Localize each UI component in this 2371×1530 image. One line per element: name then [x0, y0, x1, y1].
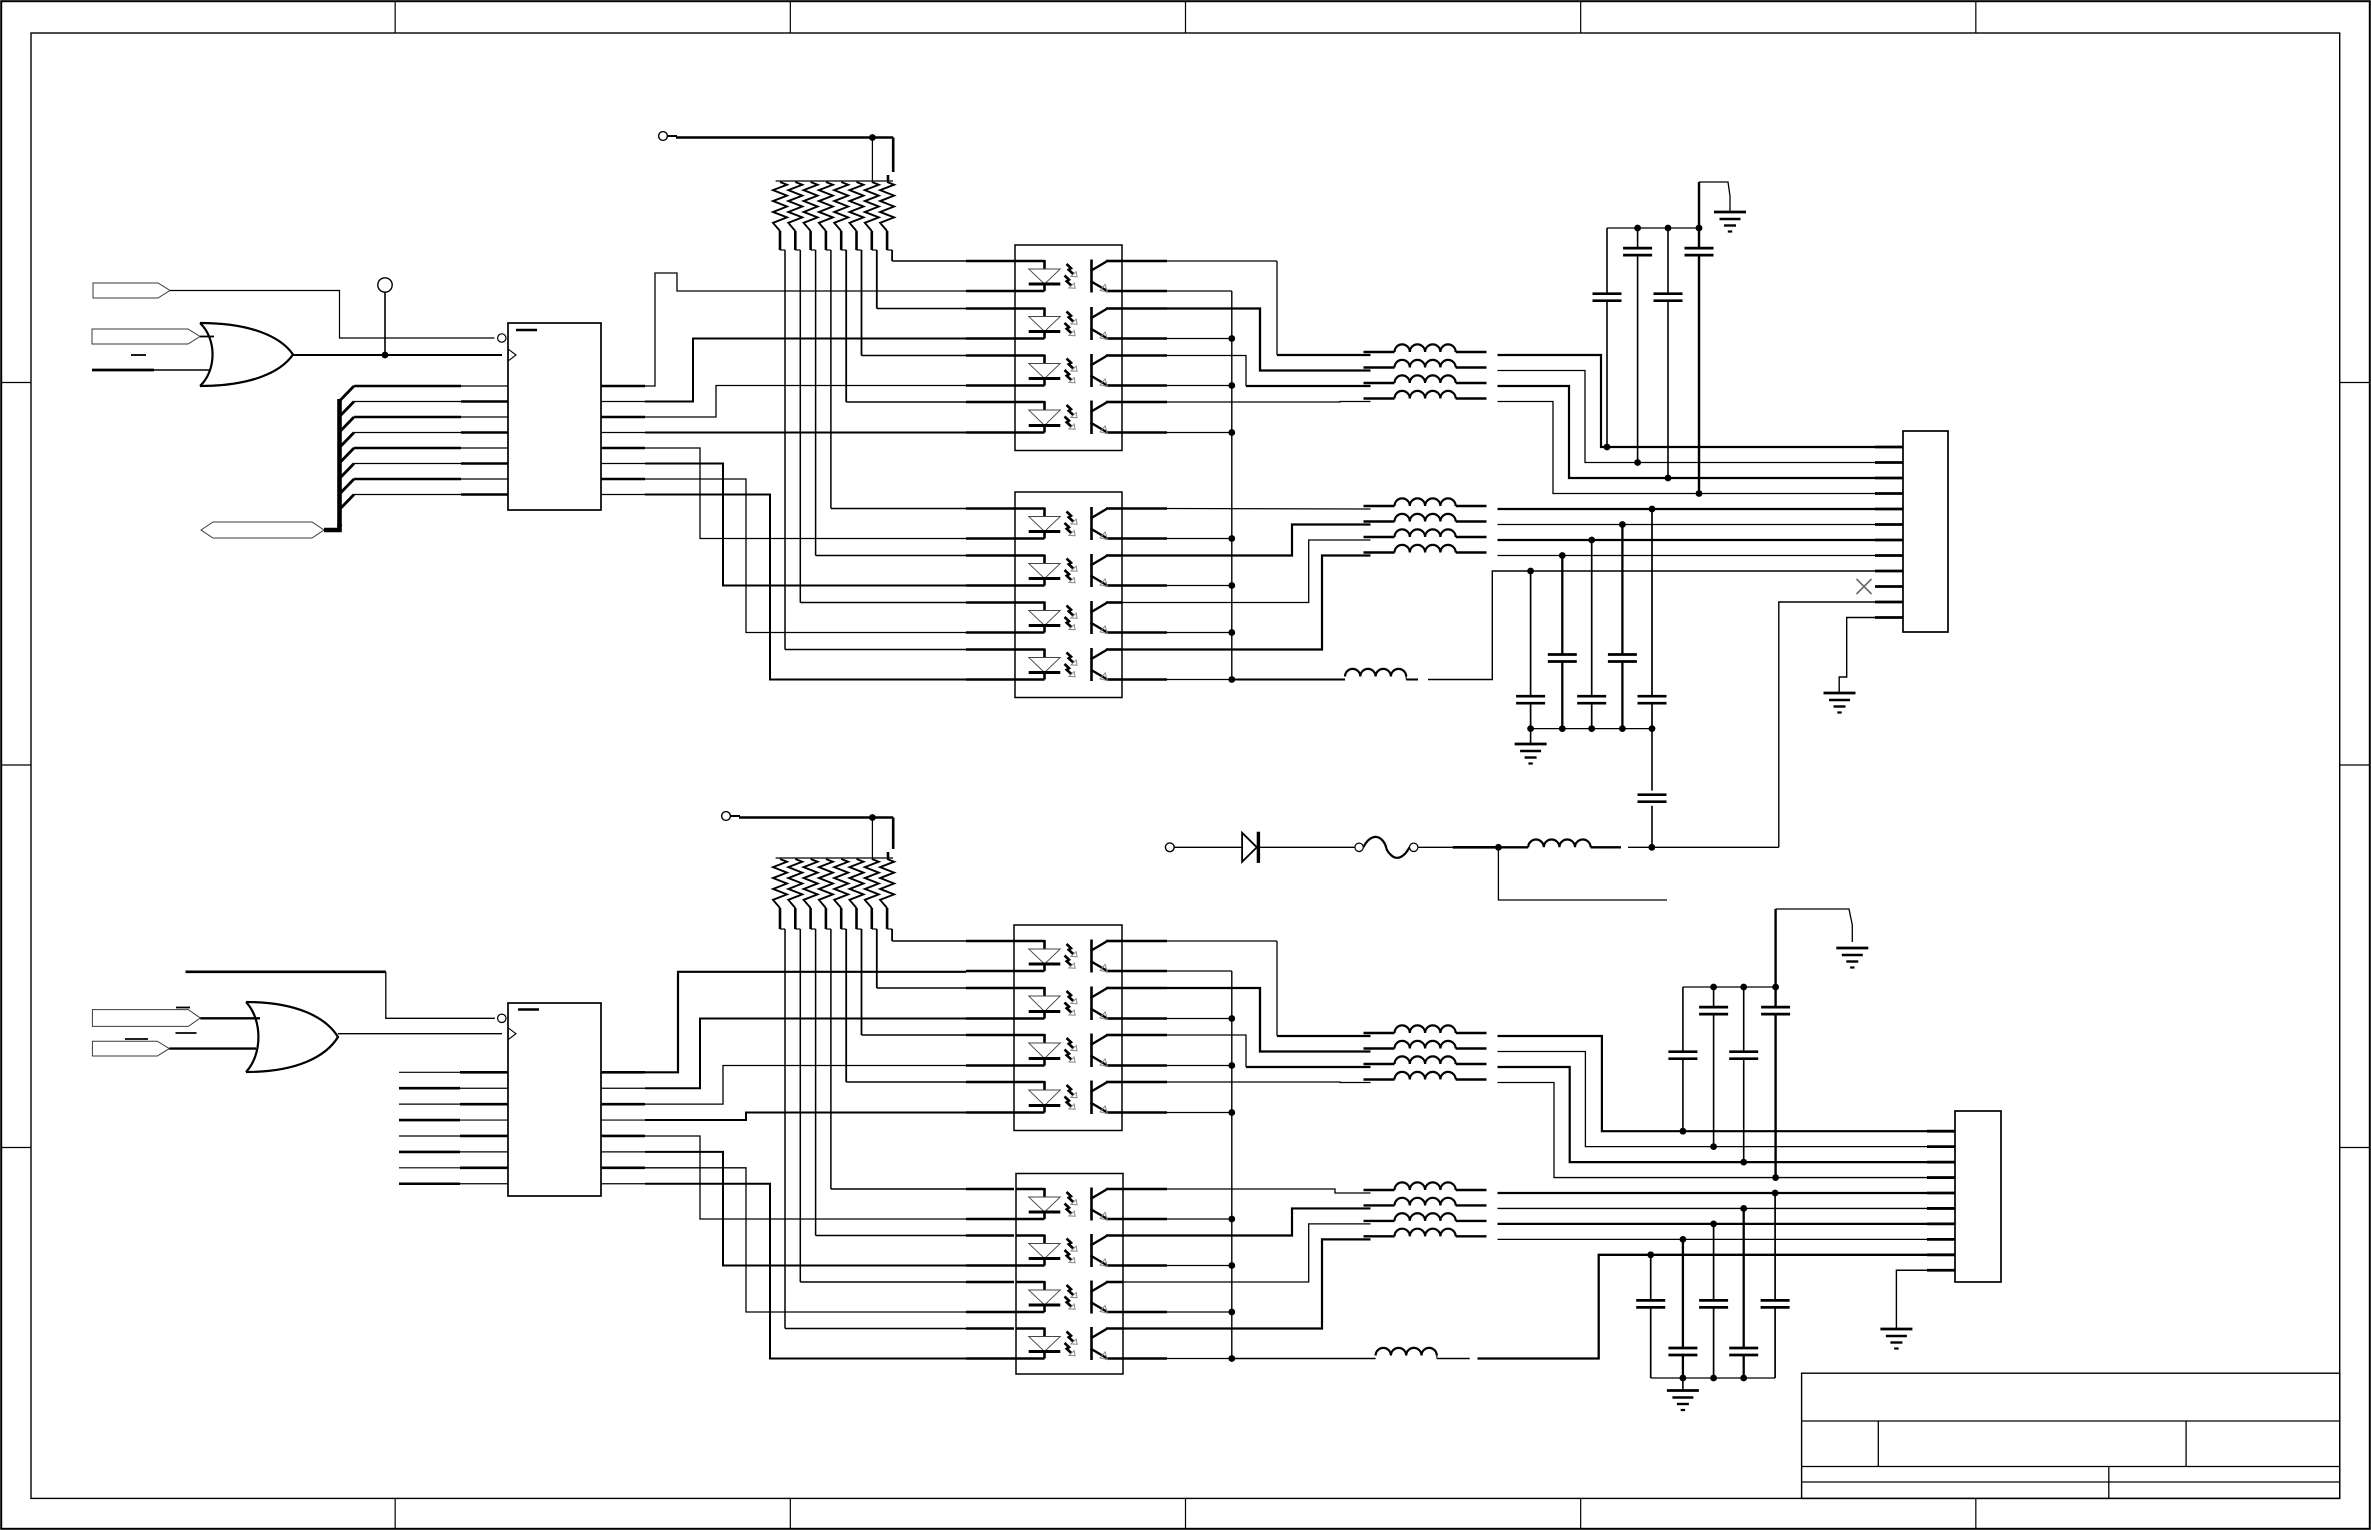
wire pull-up stem [384, 292, 386, 355]
frame zone ticks left [1, 382, 31, 384]
wire resistor R3 to LED anode [815, 250, 817, 556]
wire U1 out2 to U2 cathode2 [601, 401, 645, 403]
wire L6 to connector J1 pin 6 [1498, 524, 1876, 526]
inductor L3 [1364, 382, 1395, 384]
connector J2 pin 3 stub [1927, 1161, 1955, 1164]
wire U3 collector1 to L5 [1122, 507, 1167, 510]
wire resistor R8 to LED anode [891, 250, 893, 261]
net flag IN2B [92, 1041, 169, 1056]
capacitor C6 [1561, 556, 1563, 655]
wire bus to U1 input pin 1 [354, 385, 461, 388]
wire L2 to connector J1 pin 2 [1498, 371, 1876, 463]
ground GND4 riser [1774, 909, 1776, 987]
connector J1 pin 12 stub [1875, 616, 1903, 619]
junction [1772, 1174, 1779, 1181]
capacitor C8 [1621, 525, 1623, 655]
wire U4 out3 to U5 cathode3 [601, 1103, 645, 1106]
wire U5 collector1 to L11 [1122, 940, 1167, 943]
optocoupler U3 (quad) [1015, 492, 1122, 698]
inductor L16 [1364, 1204, 1395, 1206]
wire U4 out5 to U6 cathode1 [601, 1135, 645, 1138]
wire phototransistor emitter to bus [1122, 1264, 1167, 1267]
bus BUS1 vertical [337, 399, 342, 527]
junction [1680, 1128, 1687, 1135]
wire U6 collector1 to L15 [1123, 1188, 1167, 1191]
wire phototransistor emitter to bus [1122, 584, 1167, 587]
wire L19 to connector J2 pin 9 [1478, 1255, 1928, 1359]
wire U1 out3 to U2 cathode3 [601, 416, 645, 419]
bus net flag [201, 522, 324, 538]
terminal T2 circle [1165, 843, 1174, 852]
bus entry tap 1 [340, 386, 355, 401]
ground GND1 [1714, 211, 1746, 214]
ground GND1 riser [1698, 182, 1700, 228]
connector J1 pin 2 stub [1875, 461, 1903, 464]
wire L7 to connector J1 pin 7 [1498, 539, 1876, 541]
bus entry tap 2 [340, 402, 355, 417]
wire phototransistor emitter to bus [1122, 1064, 1167, 1067]
junction [1647, 1251, 1654, 1258]
inductor L7 [1364, 536, 1395, 538]
frame zone ticks right [2340, 382, 2370, 384]
junction [1696, 490, 1703, 497]
inductor L13 [1364, 1063, 1395, 1065]
wire U6 collector3 to L17 [1123, 1224, 1371, 1282]
wire L4 to connector J1 pin 4 [1498, 402, 1876, 494]
or-gate G2 [246, 1002, 258, 1072]
ground GND5 [1682, 1378, 1684, 1390]
wire resistor R15 to LED anode [876, 929, 878, 988]
capacitor C18 [1743, 1208, 1745, 1348]
wire resistor R10 to LED anode [799, 929, 801, 1282]
capacitor C9 [1651, 509, 1653, 696]
inductor L15 [1364, 1189, 1395, 1191]
connector J1 [1903, 431, 1948, 632]
wire flag IN1A to U1 enable [170, 291, 495, 339]
wire input stub to U4 pin 6 [399, 1151, 460, 1154]
resistor R11 [804, 859, 818, 908]
net flag IN1B [92, 329, 200, 344]
wire resistor R11 to LED anode [815, 929, 817, 1236]
junction [869, 814, 876, 821]
wire U4 out8 to U6 cathode4 [601, 1183, 645, 1185]
resistor R15 [865, 859, 879, 908]
junction [1740, 1159, 1747, 1166]
wire flag IN2A to OR gate G2 [200, 1017, 260, 1019]
resistor R9 [773, 859, 787, 908]
wire U5 collector4 to L14 [1122, 1081, 1167, 1084]
connector J1 pin 5 stub [1875, 508, 1903, 511]
wire resistor R12 to LED anode [830, 929, 832, 1189]
connector J1 pin 10 stub [1875, 585, 1903, 588]
wire bus to U1 input pin 3 [354, 416, 461, 419]
inductor L4 [1364, 397, 1395, 399]
wire F1 to L10 [1418, 846, 1453, 848]
net flag IN1A [93, 283, 170, 298]
wire bus to U1 input pin 8 [354, 494, 461, 496]
cap bus C5-C9 bottom rail [1531, 728, 1652, 730]
inductor L12 [1364, 1047, 1395, 1049]
inductor L10 [1502, 846, 1528, 848]
wire resistor R9 to LED anode [784, 929, 786, 1329]
junction [382, 352, 389, 359]
IC U1 buffer [508, 323, 601, 510]
wire resistor R16 to LED anode [891, 929, 893, 941]
capacitor C14 [1774, 987, 1776, 1007]
wire flag IN1B to OR gate input [200, 336, 214, 338]
junction [869, 134, 876, 141]
diode D1 [1242, 833, 1257, 862]
wire L18 to connector J2 pin 8 [1498, 1238, 1928, 1240]
wire L3 to connector J1 pin 3 [1498, 386, 1876, 478]
wire U6 collector2 to L16 [1123, 1208, 1371, 1235]
capacitor C17 [1713, 1224, 1715, 1301]
junction [1740, 1205, 1747, 1212]
or-gate G1 [200, 323, 213, 386]
cap bus C15-C19 rail [1651, 1377, 1775, 1379]
wire phototransistor emitter to bus [1122, 1111, 1167, 1114]
connector J2 pin 9 stub [1927, 1253, 1955, 1256]
connector J2 pin 2 stub [1927, 1145, 1955, 1148]
wire L13 to connector J2 pin 3 [1498, 1067, 1928, 1162]
label dash [176, 1007, 190, 1009]
junction [1710, 1143, 1717, 1150]
ground GND2 [1530, 729, 1532, 744]
U4 enable bubble pin [498, 1014, 506, 1022]
resistor R8 [880, 182, 894, 231]
wire L14 to connector J2 pin 4 [1498, 1083, 1928, 1178]
inductor L8 [1364, 551, 1395, 553]
no-connect X at J1 pin 10 [1857, 579, 1872, 594]
junction [1649, 506, 1656, 513]
wire resistor R4 to LED anode [830, 250, 832, 509]
wire L5 to connector J1 pin 5 [1498, 508, 1876, 510]
wire L17 to connector J2 pin 7 [1498, 1223, 1928, 1225]
capacitor C5 [1530, 571, 1532, 696]
wire input stub to U4 pin 3 [399, 1103, 460, 1105]
junction [1619, 521, 1626, 528]
connector J2 pin 6 stub [1927, 1207, 1955, 1210]
cap bus C1-C4 top rail [1607, 227, 1699, 229]
inductor L14 [1364, 1078, 1395, 1080]
resistor R6 [850, 182, 864, 231]
wire U2 collector3 to L3 [1122, 354, 1167, 357]
wire OR gate input 2 [92, 369, 154, 372]
junction [1772, 1190, 1779, 1197]
connector J2 pin 7 stub [1927, 1223, 1955, 1226]
title block [1802, 1373, 2340, 1498]
resistor R5 [834, 182, 848, 231]
bus entry tap 8 [340, 495, 355, 510]
wire U6 collector4 to L18 [1123, 1239, 1371, 1328]
wire resistor R5 to LED anode [845, 250, 847, 402]
label dash [176, 1032, 197, 1034]
frame zone ticks bottom [394, 1498, 396, 1528]
optocoupler U2 (quad) [1015, 245, 1122, 451]
capacitor C15 [1650, 1255, 1652, 1301]
wire U5 collector3 to L13 [1122, 1034, 1167, 1037]
wire L1 to connector J1 pin 1 [1498, 355, 1876, 447]
wire U2 collector4 to L4 [1122, 401, 1167, 404]
wire bus to U1 input pin 5 [354, 447, 461, 450]
junction [1665, 475, 1672, 482]
wire U2 collector1 to L1 [1122, 260, 1167, 263]
wire phototransistor emitter to bus [1122, 337, 1167, 340]
resistor R1 [773, 182, 787, 231]
wire L16 to connector J2 pin 6 [1498, 1207, 1928, 1209]
wire U4 out1 to U5 cathode1 [601, 1071, 645, 1074]
capacitor C11 [1682, 987, 1684, 1052]
wire U3 collector4 to L8 [1122, 556, 1371, 650]
U1 clock pin arrow [508, 349, 516, 361]
wire L11 to connector J2 pin 1 [1498, 1036, 1928, 1131]
resistor R13 [834, 859, 848, 908]
wire T2 to diode D1 [1174, 846, 1242, 848]
connector J2 pin 1 stub [1927, 1130, 1955, 1133]
terminal T3 circle [722, 812, 731, 821]
wire U4 out7 to U6 cathode3 [601, 1167, 645, 1170]
connector J1 pin 11 stub [1875, 601, 1903, 604]
wire phototransistor emitter to bus [1122, 970, 1167, 973]
wire U6 emitter4 [1123, 1357, 1167, 1360]
optocoupler U5 (quad) [1014, 925, 1122, 1131]
wire OR gate G1 output to U1 clock pin [293, 354, 502, 356]
bus entry tap 6 [340, 464, 355, 479]
wire phototransistor emitter to bus [1122, 631, 1167, 634]
wire T1 to resistor bank 1 [668, 135, 678, 137]
wire U4 out2 to U5 cathode2 [601, 1087, 645, 1089]
wire L12 to connector J2 pin 2 [1498, 1052, 1928, 1147]
wire T3 to resistor bank 2 [731, 815, 741, 817]
frame zone ticks top [394, 1, 396, 33]
ground GND6 [1880, 1328, 1912, 1331]
junction [1588, 537, 1595, 544]
connector J2 pin 4 stub [1927, 1176, 1955, 1179]
wire L15 to connector J2 pin 5 [1498, 1192, 1928, 1194]
wire J2 pin 10 to ground [1896, 1270, 1927, 1328]
wire resistor R7 to LED anode [876, 250, 878, 309]
wire phototransistor emitter to bus [1122, 1017, 1167, 1020]
emitter common bus 1 [1231, 291, 1233, 680]
wire phototransistor emitter to bus [1122, 290, 1167, 293]
wire power rail to J1 pin 11 [1779, 602, 1875, 847]
wire input stub to U4 pin 2 [399, 1087, 460, 1090]
wire resistor R1 to LED anode [784, 250, 786, 650]
junction [1527, 568, 1534, 575]
capacitor C4 [1698, 228, 1700, 248]
wire U4 out4 to U5 cathode4 [601, 1119, 645, 1121]
capacitor C1 [1606, 228, 1608, 294]
wire U1 out1 to U2 cathode1 [601, 385, 645, 388]
wire stub below [1498, 847, 1667, 900]
connector J1 pin 6 stub [1875, 523, 1903, 526]
wire L10 to power rail [1628, 846, 1652, 848]
U1 enable bubble pin [498, 334, 506, 342]
inductor L17 [1364, 1220, 1395, 1222]
wire flag IN2B to OR gate G2 [169, 1047, 256, 1049]
wire phototransistor emitter to bus [1122, 1311, 1167, 1314]
connector J1 pin 7 stub [1875, 539, 1903, 542]
wire resistor R13 to LED anode [845, 929, 847, 1082]
wire U3 collector2 to L6 [1122, 525, 1371, 556]
junction [1710, 1221, 1717, 1228]
capacitor C10 (mid) [1651, 729, 1653, 791]
capacitor C3 [1667, 228, 1669, 294]
connector J2 [1955, 1111, 2001, 1282]
wire J1 pin 12 to ground [1839, 618, 1875, 693]
connector J1 pin 9 stub [1875, 570, 1903, 573]
junction [1634, 459, 1641, 466]
connector J1 pin 8 stub [1875, 554, 1903, 557]
resistor R12 [819, 859, 833, 908]
emitter common bus 2 [1231, 971, 1233, 1359]
wire input stub to U4 pin 4 [399, 1119, 460, 1122]
wire input stub to U4 pin 8 [399, 1182, 460, 1185]
wire G2 output to U4 clock [338, 1033, 502, 1035]
inductor L18 [1364, 1235, 1395, 1237]
resistor R3 [804, 182, 818, 231]
resistor R7 [865, 182, 879, 231]
inductor L2 [1364, 366, 1395, 368]
optocoupler U6 (quad) [1016, 1174, 1123, 1375]
wire U1 out6 to U3 cathode2 [601, 463, 645, 465]
wire phototransistor emitter to bus [1122, 431, 1167, 434]
wire U3 collector3 to L7 [1122, 540, 1371, 603]
junction [1495, 844, 1502, 851]
bus entry tap 7 [340, 479, 355, 494]
inductor L6 [1364, 520, 1395, 522]
wire U1 out7 to U3 cathode3 [601, 478, 645, 481]
capacitor C2 [1637, 228, 1639, 248]
wire U1 out4 to U2 cathode4 [601, 432, 645, 434]
inductor L9 [1232, 679, 1345, 681]
wire phototransistor emitter to bus [1122, 537, 1167, 540]
inductor L1 [1364, 351, 1395, 353]
wire input stub to U4 pin 7 [399, 1167, 460, 1169]
wire phototransistor emitter to bus [1122, 1218, 1167, 1221]
wire bus to U1 input pin 4 [354, 432, 461, 434]
wire input stub to U4 pin 5 [399, 1135, 460, 1137]
wire T3 corner to bank top [892, 818, 895, 850]
wire bus to U1 input pin 2 [354, 401, 461, 403]
connector J1 pin 3 stub [1875, 477, 1903, 480]
wire resistor R14 to LED anode [861, 929, 863, 1035]
ground GND4 [1836, 947, 1868, 950]
wire bus to U1 input pin 6 [354, 463, 461, 465]
junction [1680, 1236, 1687, 1243]
bus entry tap 4 [340, 433, 355, 448]
net flag IN2A [92, 1010, 200, 1027]
capacitor C7 [1591, 540, 1593, 696]
capacitor C13 [1743, 987, 1745, 1052]
ground GND3 [1824, 692, 1856, 695]
pull-up terminal circle [378, 278, 392, 292]
wire L9 to connector J1 pin 9 [1428, 571, 1875, 680]
IC U4 buffer [508, 1003, 601, 1196]
resistor R4 [819, 182, 833, 231]
capacitor C19 [1774, 1193, 1776, 1300]
label dash [131, 354, 146, 356]
resistor R16 [880, 859, 894, 908]
capacitor C12 [1713, 987, 1715, 1007]
connector J1 pin 1 stub [1875, 446, 1903, 449]
wire rail to U4 enable [186, 970, 386, 973]
bus entry tap 5 [340, 448, 355, 463]
cap bus C11-C14 rail [1683, 986, 1776, 988]
label dash [125, 1038, 148, 1040]
resistor bank 2 top rail [776, 857, 893, 859]
wire U4 out6 to U6 cathode2 [601, 1151, 645, 1153]
wire input stub to U4 pin 1 [399, 1071, 460, 1073]
resistor bank 1 top rail [776, 180, 893, 182]
wire resistor R2 to LED anode [799, 250, 801, 603]
wire U1 out8 to U3 cathode4 [601, 494, 645, 496]
junction [1604, 444, 1611, 451]
connector J2 pin 5 stub [1927, 1192, 1955, 1195]
junction [1559, 552, 1566, 559]
connector J1 pin 4 stub [1875, 492, 1903, 495]
terminal T1 circle [659, 132, 668, 141]
connector J2 pin 10 stub [1927, 1269, 1955, 1272]
capacitor C16 [1682, 1239, 1684, 1348]
bus entry tap 3 [340, 417, 355, 432]
wire D1 to fuse F1 [1259, 846, 1355, 848]
inductor L5 [1364, 505, 1395, 507]
resistor R2 [788, 182, 802, 231]
connector J2 pin 8 stub [1927, 1238, 1955, 1241]
wire resistor R6 to LED anode [861, 250, 863, 356]
fuse F1 [1355, 843, 1363, 851]
wire phototransistor emitter to bus [1122, 678, 1167, 681]
wire phototransistor emitter to bus [1122, 384, 1167, 387]
wire U2 collector2 to L2 [1122, 307, 1167, 310]
U4 clock pin arrow [508, 1028, 516, 1040]
wire L8 to connector J1 pin 8 [1498, 555, 1876, 557]
wire U1 out5 to U3 cathode1 [601, 447, 645, 450]
resistor R10 [788, 859, 802, 908]
wire T1 corner to bank top [892, 138, 895, 173]
wire U5 collector2 to L12 [1122, 987, 1167, 990]
wire bus to U1 input pin 7 [354, 478, 461, 481]
inductor L11 [1364, 1032, 1395, 1034]
inductor L19 [1232, 1358, 1376, 1360]
resistor R14 [850, 859, 864, 908]
